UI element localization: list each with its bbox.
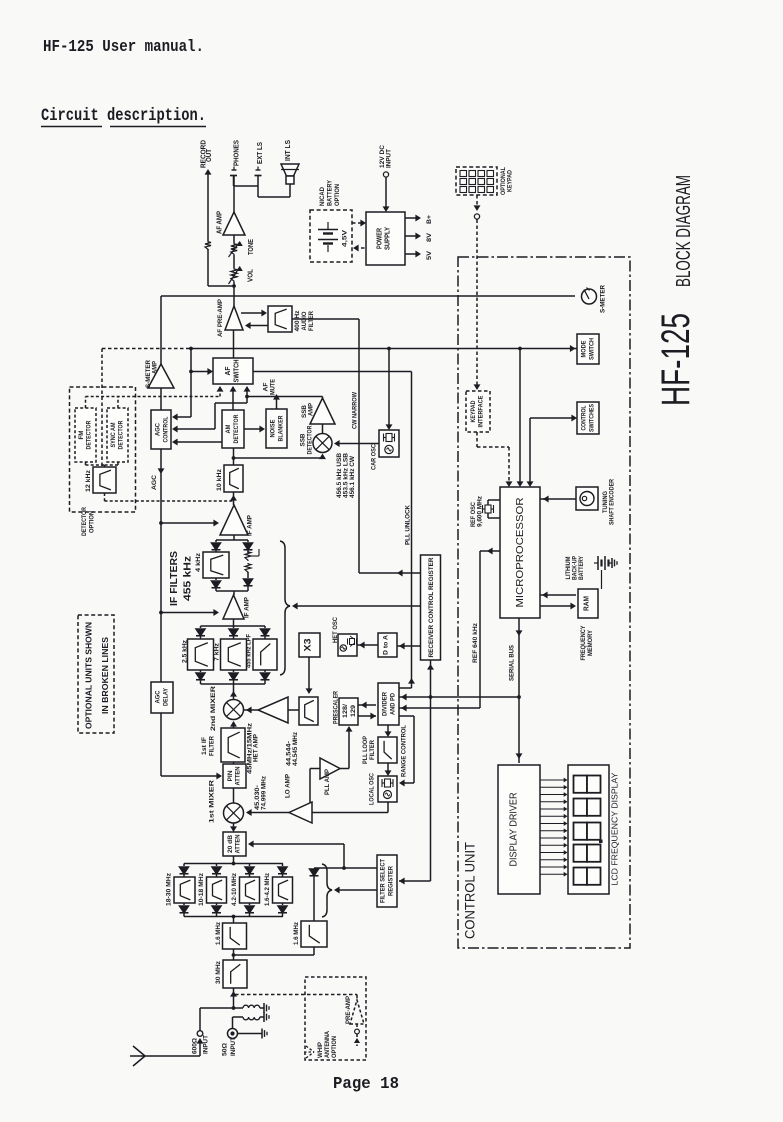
svg-text:AF PRE-AMP: AF PRE-AMP <box>217 298 224 337</box>
svg-text:44.545 MHz: 44.545 MHz <box>293 732 299 766</box>
svg-text:CONTROL UNIT: CONTROL UNIT <box>463 842 478 939</box>
svg-text:KEYPAD: KEYPAD <box>507 170 514 192</box>
svg-text:RECEIVER CONTROL REGISTER: RECEIVER CONTROL REGISTER <box>428 557 435 657</box>
svg-text:NICAD: NICAD <box>319 187 326 206</box>
svg-text:50Ω: 50Ω <box>222 1043 229 1056</box>
svg-text:456.5 kHz USB: 456.5 kHz USB <box>337 452 343 498</box>
svg-text:5V: 5V <box>426 250 433 260</box>
svg-text:MEMORY: MEMORY <box>587 629 594 656</box>
svg-text:OPTIONAL UNITS SHOWN: OPTIONAL UNITS SHOWN <box>85 622 94 729</box>
svg-text:BATTERY: BATTERY <box>327 179 334 206</box>
svg-text:LOCAL OSC: LOCAL OSC <box>369 773 376 805</box>
svg-text:CW NARROW: CW NARROW <box>352 391 359 429</box>
svg-text:1.6 MHz: 1.6 MHz <box>215 921 222 945</box>
svg-text:1.6-4.2 MHz: 1.6-4.2 MHz <box>264 873 271 906</box>
svg-text:OPTION: OPTION <box>89 511 96 533</box>
svg-text:ANTENNA: ANTENNA <box>324 1031 331 1058</box>
svg-text:129: 129 <box>350 705 357 717</box>
svg-text:OPTION: OPTION <box>331 1036 338 1058</box>
svg-text:REF 640 kHz: REF 640 kHz <box>472 622 479 663</box>
svg-text:SYNC AM: SYNC AM <box>110 423 117 448</box>
svg-text:44.544-: 44.544- <box>287 741 293 766</box>
svg-text:AF: AF <box>263 382 270 391</box>
svg-text:CAR OSC: CAR OSC <box>371 444 378 470</box>
svg-text:4,5V: 4,5V <box>342 229 349 247</box>
svg-text:Page 18: Page 18 <box>333 1074 399 1093</box>
svg-text:POWER: POWER <box>377 228 384 249</box>
svg-text:MODE: MODE <box>581 340 588 358</box>
svg-text:455 kHz: 455 kHz <box>182 556 194 601</box>
svg-text:4.2-10 MHz: 4.2-10 MHz <box>231 873 238 906</box>
svg-text:S-METER: S-METER <box>600 285 607 313</box>
svg-text:TONE: TONE <box>248 239 255 255</box>
svg-text:SERIAL BUS: SERIAL BUS <box>509 644 516 681</box>
svg-text:SSB: SSB <box>300 433 307 446</box>
svg-text:BATTERY: BATTERY <box>579 556 585 580</box>
svg-text:OUT: OUT <box>206 148 213 162</box>
svg-text:CONTROL: CONTROL <box>581 405 588 430</box>
svg-text:WHIP: WHIP <box>317 1041 324 1058</box>
svg-text:NOISE: NOISE <box>270 419 277 438</box>
svg-text:DELAY: DELAY <box>163 687 170 706</box>
svg-text:45MHz/15MHz: 45MHz/15MHz <box>248 723 254 774</box>
svg-text:INTERFACE: INTERFACE <box>478 395 485 428</box>
svg-text:PHONES: PHONES <box>234 140 241 166</box>
svg-text:AND PD: AND PD <box>390 693 397 715</box>
svg-text:128/: 128/ <box>342 704 349 718</box>
svg-text:DIVIDER: DIVIDER <box>382 692 389 716</box>
svg-text:RANGE CONTROL: RANGE CONTROL <box>401 725 408 777</box>
svg-text:AUDIO: AUDIO <box>301 312 308 331</box>
svg-text:LITHIUM: LITHIUM <box>566 556 572 579</box>
svg-text:DETECTOR: DETECTOR <box>118 420 125 449</box>
svg-text:IF FILTERS: IF FILTERS <box>168 551 180 606</box>
svg-text:DETECTOR: DETECTOR <box>307 425 314 454</box>
svg-text:10 kHz: 10 kHz <box>216 468 223 491</box>
svg-text:AF AMP: AF AMP <box>217 211 224 234</box>
svg-text:455 kHz LPF: 455 kHz LPF <box>246 634 253 668</box>
svg-text:1st MIXER: 1st MIXER <box>209 780 216 823</box>
svg-text:FILTER: FILTER <box>369 740 376 760</box>
svg-text:LCD FREQUENCY DISPLAY: LCD FREQUENCY DISPLAY <box>610 772 620 885</box>
svg-text:OPTION: OPTION <box>334 184 341 206</box>
svg-text:MICROPROCESSOR: MICROPROCESSOR <box>515 498 526 608</box>
svg-text:CONTROL: CONTROL <box>163 416 170 442</box>
svg-text:REF OSC: REF OSC <box>471 501 477 527</box>
svg-text:AMP: AMP <box>308 402 315 416</box>
svg-text:AF: AF <box>225 366 232 376</box>
svg-text:RAM: RAM <box>582 596 591 611</box>
svg-text:20 dB: 20 dB <box>227 835 234 853</box>
svg-text:FILTER: FILTER <box>308 311 315 331</box>
svg-text:AGC: AGC <box>151 475 158 490</box>
svg-text:PLL UNLOCK: PLL UNLOCK <box>405 505 412 545</box>
svg-text:INT LS: INT LS <box>285 140 292 161</box>
svg-text:AMP: AMP <box>152 360 159 374</box>
svg-text:INPUT: INPUT <box>203 1035 210 1054</box>
svg-text:FILTER: FILTER <box>209 736 216 756</box>
svg-text:FILTER SELECT: FILTER SELECT <box>380 859 387 903</box>
svg-text:DETECTOR: DETECTOR <box>81 507 88 536</box>
svg-text:LO AMP: LO AMP <box>285 773 292 798</box>
svg-text:IN BROKEN LINES: IN BROKEN LINES <box>101 636 110 714</box>
svg-text:AGC: AGC <box>155 423 162 436</box>
svg-text:PRE-AMP: PRE-AMP <box>345 995 352 1024</box>
svg-text:AM: AM <box>225 425 232 434</box>
svg-text:PRESCALER: PRESCALER <box>333 691 340 724</box>
svg-text:453.5 kHz LSB: 453.5 kHz LSB <box>344 452 350 498</box>
svg-text:EXT LS: EXT LS <box>257 142 264 164</box>
svg-text:9,600 MHz: 9,600 MHz <box>478 496 484 527</box>
svg-text:SHAFT ENCODER: SHAFT ENCODER <box>609 479 616 525</box>
svg-text:PIN: PIN <box>227 770 234 781</box>
svg-text:VOL: VOL <box>248 268 255 282</box>
svg-text:IF AMP: IF AMP <box>247 514 254 536</box>
svg-text:HF-125: HF-125 <box>654 313 698 406</box>
svg-text:REGISTER: REGISTER <box>388 866 395 896</box>
svg-text:ATTEN: ATTEN <box>235 766 242 785</box>
svg-text:45.030-: 45.030- <box>255 785 261 810</box>
svg-text:X3: X3 <box>303 639 313 652</box>
svg-text:MUTE: MUTE <box>270 378 277 395</box>
svg-text:BACK-UP: BACK-UP <box>573 556 579 580</box>
svg-text:7 kHz: 7 kHz <box>214 642 221 661</box>
svg-text:ATTEN: ATTEN <box>235 834 242 853</box>
svg-text:DISPLAY DRIVER: DISPLAY DRIVER <box>509 793 520 867</box>
svg-text:PLL AMP: PLL AMP <box>324 768 331 795</box>
svg-text:4 kHz: 4 kHz <box>195 552 202 572</box>
svg-text:Circuit description.: Circuit description. <box>41 106 206 126</box>
svg-text:DETECTOR: DETECTOR <box>86 420 93 449</box>
svg-text:B+: B+ <box>426 215 433 224</box>
svg-text:SWITCH: SWITCH <box>234 360 241 383</box>
svg-text:600Ω: 600Ω <box>192 1038 199 1054</box>
svg-text:FM: FM <box>78 431 85 440</box>
svg-text:SWITCHES: SWITCHES <box>589 403 596 432</box>
svg-text:30 MHz: 30 MHz <box>215 960 222 984</box>
svg-text:400 Hz: 400 Hz <box>294 310 301 332</box>
svg-text:456.1 kHz CW: 456.1 kHz CW <box>350 456 356 498</box>
svg-text:1.6 MHz: 1.6 MHz <box>293 921 300 945</box>
svg-text:2nd MIXER: 2nd MIXER <box>210 686 217 731</box>
svg-text:FREQUENCY: FREQUENCY <box>580 625 587 661</box>
svg-text:D to A: D to A <box>383 635 390 655</box>
svg-text:BLANKER: BLANKER <box>278 415 285 441</box>
svg-text:AGC: AGC <box>155 690 162 703</box>
svg-text:IF AMP: IF AMP <box>244 596 251 618</box>
svg-text:SUPPLY: SUPPLY <box>385 227 392 250</box>
svg-text:DETECTOR: DETECTOR <box>233 414 240 443</box>
svg-text:8V: 8V <box>426 232 433 242</box>
svg-text:74.999 MHz: 74.999 MHz <box>262 776 268 810</box>
svg-text:2.5 kHz: 2.5 kHz <box>182 639 189 663</box>
svg-text:INPUT: INPUT <box>230 1037 237 1056</box>
svg-text:HF-125 User manual.: HF-125 User manual. <box>43 38 204 57</box>
svg-text:BLOCK DIAGRAM: BLOCK DIAGRAM <box>673 175 695 287</box>
svg-text:10-18 MHz: 10-18 MHz <box>198 873 205 906</box>
svg-text:INPUT: INPUT <box>386 149 393 168</box>
svg-text:18-30 MHz: 18-30 MHz <box>166 873 173 906</box>
svg-text:HET OSC: HET OSC <box>332 617 339 643</box>
svg-text:HET AMP: HET AMP <box>253 733 260 762</box>
svg-text:12 kHz: 12 kHz <box>85 469 92 492</box>
svg-text:KEYPAD: KEYPAD <box>470 400 477 422</box>
svg-text:PLL LOOP: PLL LOOP <box>362 735 369 764</box>
svg-text:SWITCH: SWITCH <box>589 338 596 360</box>
svg-text:1st IF: 1st IF <box>201 737 208 755</box>
